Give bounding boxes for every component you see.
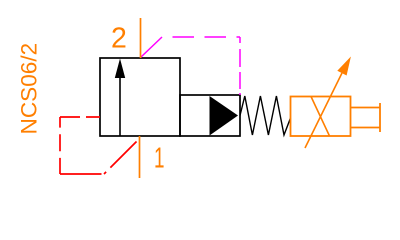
svg-text:1: 1 [154, 143, 165, 175]
svg-text:2: 2 [111, 23, 127, 55]
svg-text:NCS06/2: NCS06/2 [17, 43, 42, 135]
